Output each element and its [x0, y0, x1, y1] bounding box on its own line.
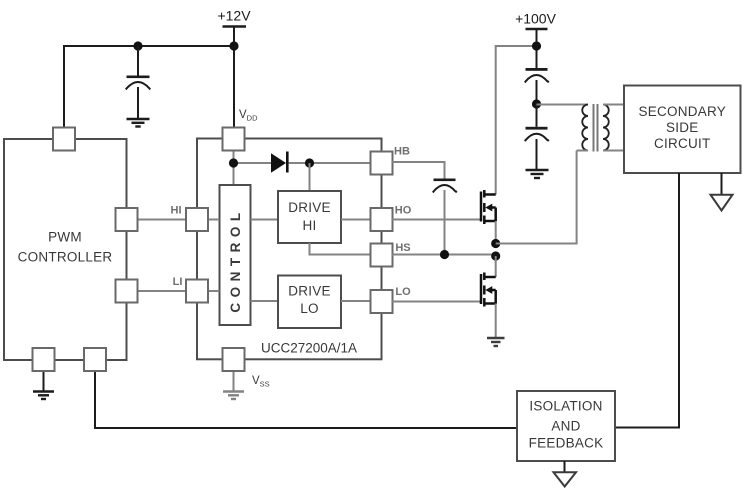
- svg-text:LO: LO: [300, 301, 319, 316]
- transistor Q1 (high-side NMOS): [481, 190, 496, 224]
- svg-text:FEEDBACK: FEEDBACK: [529, 436, 604, 451]
- svg-text:HO: HO: [395, 205, 412, 217]
- wire: DRIVE LO output to LO terminal: [341, 300, 371, 302]
- node: switch node (Q1 source): [491, 239, 500, 248]
- wire: cap junction to transformer primary: [537, 104, 589, 106]
- node: VDD internal junction: [229, 158, 238, 167]
- terminal: PWM HI out: [116, 208, 138, 231]
- node: +100V junction: [532, 41, 541, 50]
- svg-text:AND: AND: [551, 419, 580, 434]
- terminal: PWM feedback: [84, 348, 106, 371]
- svg-text:ISOLATION: ISOLATION: [529, 399, 602, 414]
- svg-text:+100V: +100V: [515, 11, 557, 27]
- svg-text:HI: HI: [171, 205, 182, 217]
- terminal: UCC HB: [371, 152, 393, 175]
- svg-text:CIRCUIT: CIRCUIT: [654, 136, 711, 151]
- wire: +100V drop: [536, 29, 538, 68]
- wire: UCC HI input to CONTROL: [208, 219, 220, 221]
- wire: secondary ground lead: [721, 173, 723, 195]
- wire: VSS terminal to ground: [233, 371, 235, 392]
- wire: isolation ground lead: [564, 461, 566, 472]
- wire: HO to Q1 gate: [392, 219, 481, 221]
- DRIVE HI block: [278, 191, 341, 243]
- capacitor C4 (bus cap lower): [525, 104, 549, 170]
- svg-text:CONTROLLER: CONTROLLER: [18, 250, 113, 265]
- svg-text:SECONDARY: SECONDARY: [639, 104, 727, 119]
- transformer T1 primary winding: [582, 105, 588, 151]
- wire: secondary box to isolation feedback: [615, 173, 679, 428]
- terminal: PWM gnd: [33, 348, 55, 371]
- svg-text:PWM: PWM: [48, 230, 82, 245]
- transformer T1 core: [594, 104, 598, 152]
- wire: switch node to transformer primary return: [496, 151, 577, 244]
- terminal: UCC VDD: [223, 128, 245, 151]
- wire: CONTROL to DRIVE HI: [251, 219, 279, 221]
- wire: +12V horizontal rail to PWM branch: [64, 46, 234, 129]
- UCC27200A/1A gate driver block U1: [197, 139, 382, 360]
- +100V power rail symbol: [515, 11, 557, 30]
- svg-text:HB: HB: [394, 146, 410, 158]
- wire: PWM feedback input down and across to isolation block: [95, 371, 517, 429]
- ground: below C1: [127, 119, 150, 127]
- ground: bus cap: [526, 170, 549, 178]
- wire: HS line to switch node: [392, 254, 496, 256]
- wire: secondary bottom to box: [603, 150, 624, 152]
- wire: LO to Q2 gate: [392, 301, 481, 303]
- ground: secondary side (chassis arrow): [711, 195, 733, 211]
- wire: Q1 drain to +100V rail: [496, 46, 537, 195]
- wire: Q2 source to ground: [495, 304, 497, 339]
- +12V power rail symbol: [217, 8, 251, 27]
- svg-text:CONTROL: CONTROL: [228, 207, 243, 312]
- wire: Q2 drain lead: [495, 256, 497, 277]
- terminal: UCC VSS: [223, 348, 245, 371]
- terminal: UCC HS: [371, 244, 393, 267]
- wire: DRIVE HI output to HO terminal: [341, 219, 371, 221]
- wire: VDD node to diode anode: [234, 162, 272, 164]
- terminal: PWM LI out: [116, 280, 138, 303]
- wire: LI PWM to UCC: [137, 290, 187, 292]
- terminal: UCC LI in: [186, 280, 208, 303]
- ground: Q2 source: [487, 338, 505, 346]
- terminal: UCC LO: [371, 290, 393, 313]
- svg-text:HI: HI: [303, 218, 317, 233]
- svg-text:HS: HS: [395, 242, 410, 254]
- node: bootstrap junction to DRIVE HI: [305, 158, 314, 167]
- wire: +12V drop to VDD terminal: [233, 27, 235, 129]
- diode D1 (bootstrap): [271, 152, 289, 173]
- wire: bootstrap node down to DRIVE HI: [309, 163, 311, 191]
- DRIVE LO block: [278, 276, 341, 329]
- wire: Q1 source to switch node: [495, 221, 497, 244]
- wire: internal node to CONTROL block: [233, 163, 235, 185]
- PWM controller block U2: [4, 139, 127, 360]
- ground: VSS: [223, 392, 244, 400]
- svg-text:UCC27200A/1A: UCC27200A/1A: [261, 341, 357, 356]
- wire: UCC LI input to CONTROL: [208, 290, 220, 292]
- svg-text:DRIVE: DRIVE: [288, 200, 331, 215]
- ground: PWM controller: [33, 392, 54, 400]
- CONTROL block: [220, 185, 251, 325]
- wire: primary return: [577, 150, 588, 152]
- svg-text:LI: LI: [173, 276, 183, 288]
- svg-text:+12V: +12V: [217, 8, 251, 24]
- transformer T1 secondary winding: [603, 105, 609, 151]
- terminal: UCC HO: [371, 208, 393, 231]
- wire: VDD terminal to internal node: [233, 150, 235, 163]
- node: bootstrap cap on HS line: [440, 250, 449, 259]
- secondary side circuit block: [624, 86, 741, 174]
- wire: secondary top to box: [603, 104, 624, 106]
- node: junction bus caps / primary: [532, 99, 541, 108]
- wire: HB to bootstrap cap: [392, 162, 445, 179]
- svg-text:LO: LO: [395, 286, 411, 298]
- capacitor C3 (bus cap upper): [525, 68, 549, 104]
- wire: HI PWM to UCC: [137, 219, 187, 221]
- terminal: UCC HI in: [186, 208, 208, 231]
- wire: PWM ground lead: [43, 371, 45, 392]
- isolation and feedback block: [517, 391, 615, 461]
- wire: diode cathode to HB terminal: [289, 162, 372, 164]
- capacitor C1 (12V bypass): [126, 46, 150, 119]
- terminal: PWM top: [53, 128, 75, 151]
- node: junction +12V / VDD drop: [229, 41, 238, 50]
- transistor Q2 (low-side NMOS): [481, 273, 496, 307]
- svg-text:SIDE: SIDE: [666, 120, 699, 135]
- ground: isolation feedback (chassis arrow): [554, 472, 577, 486]
- wire: DRIVE HI return to HS terminal: [310, 243, 372, 255]
- node: junction +12V / bypass cap: [133, 41, 142, 50]
- node: switch node (HS / Q2 drain): [491, 251, 500, 260]
- capacitor C2 (bootstrap): [433, 179, 457, 255]
- svg-text:DRIVE: DRIVE: [288, 284, 331, 299]
- wire: CONTROL to DRIVE LO: [251, 300, 279, 302]
